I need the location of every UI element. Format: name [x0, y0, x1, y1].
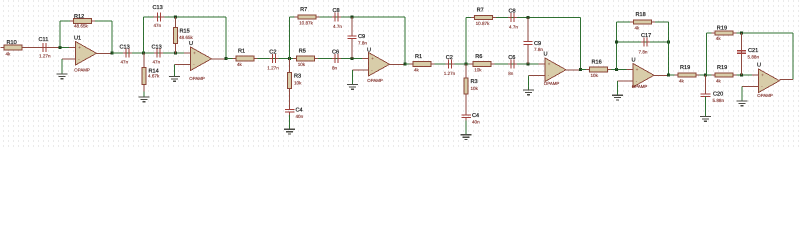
svg-text:48.65k: 48.65k: [74, 23, 88, 28]
svg-text:+: +: [193, 52, 196, 57]
svg-text:47n: 47n: [154, 23, 162, 28]
svg-text:R19: R19: [680, 65, 690, 71]
svg-text:U: U: [632, 58, 636, 64]
svg-text:C9: C9: [358, 34, 365, 40]
svg-text:R5: R5: [299, 49, 306, 55]
svg-text:OPAMP: OPAMP: [544, 81, 560, 86]
svg-text:C8: C8: [333, 8, 340, 14]
svg-text:R1: R1: [415, 54, 422, 60]
svg-text:R12: R12: [74, 14, 84, 20]
svg-text:C2: C2: [446, 55, 453, 61]
svg-text:8n: 8n: [332, 66, 338, 71]
svg-text:40n: 40n: [296, 114, 304, 119]
svg-text:C20: C20: [713, 92, 723, 98]
svg-text:4k: 4k: [716, 36, 722, 41]
svg-text:C6: C6: [508, 55, 515, 61]
svg-text:10k: 10k: [298, 62, 306, 67]
svg-text:10k: 10k: [294, 80, 302, 85]
svg-text:C6: C6: [332, 49, 339, 55]
svg-text:4k: 4k: [237, 62, 243, 67]
svg-text:R16: R16: [592, 60, 602, 66]
svg-text:C13: C13: [152, 45, 162, 51]
svg-text:C11: C11: [39, 37, 49, 43]
svg-text:7.8n: 7.8n: [358, 40, 367, 45]
svg-text:R7: R7: [477, 8, 484, 14]
svg-text:4k: 4k: [716, 78, 722, 83]
svg-text:10k: 10k: [471, 86, 479, 91]
svg-text:R19: R19: [717, 65, 727, 71]
svg-text:U1: U1: [74, 36, 81, 42]
svg-text:4k: 4k: [679, 78, 685, 83]
svg-text:8n: 8n: [508, 71, 514, 76]
svg-text:10.87k: 10.87k: [299, 20, 313, 25]
svg-text:OPAMP: OPAMP: [367, 78, 383, 83]
svg-text:C13: C13: [153, 5, 163, 11]
svg-text:+: +: [636, 68, 639, 73]
svg-text:R10: R10: [7, 40, 17, 46]
svg-text:R1: R1: [238, 49, 245, 55]
svg-text:R18: R18: [636, 12, 646, 18]
svg-text:47n: 47n: [121, 59, 129, 64]
svg-text:4.67k: 4.67k: [148, 74, 160, 79]
svg-text:C8: C8: [509, 8, 516, 14]
svg-text:47n: 47n: [153, 59, 161, 64]
svg-text:U: U: [757, 63, 761, 69]
svg-text:7.8n: 7.8n: [534, 47, 543, 52]
svg-text:C2: C2: [269, 49, 276, 55]
svg-text:4k: 4k: [414, 67, 420, 72]
svg-text:5.88n: 5.88n: [748, 54, 760, 59]
svg-text:C4: C4: [296, 108, 303, 114]
svg-text:1.27n: 1.27n: [267, 66, 279, 71]
svg-text:1.27n: 1.27n: [444, 71, 456, 76]
svg-text:R7: R7: [300, 7, 307, 13]
svg-text:7.8n: 7.8n: [639, 49, 648, 54]
svg-text:R3: R3: [471, 79, 478, 85]
svg-text:C21: C21: [748, 48, 758, 54]
svg-text:C4: C4: [472, 113, 479, 119]
svg-text:4k: 4k: [6, 51, 12, 56]
svg-text:48.65k: 48.65k: [179, 35, 193, 40]
svg-text:U: U: [544, 52, 548, 58]
svg-text:10k: 10k: [474, 67, 482, 72]
svg-text:R3: R3: [294, 74, 301, 80]
svg-text:C13: C13: [120, 45, 130, 51]
svg-text:U: U: [189, 41, 193, 47]
svg-text:+: +: [548, 63, 551, 68]
svg-text:OPAMP: OPAMP: [189, 76, 205, 81]
svg-text:R19: R19: [717, 26, 727, 32]
svg-text:OPAMP: OPAMP: [632, 84, 648, 89]
svg-text:OPAMP: OPAMP: [757, 93, 773, 98]
svg-text:4k: 4k: [635, 25, 641, 30]
svg-text:40n: 40n: [472, 119, 480, 124]
svg-text:+: +: [78, 46, 81, 51]
svg-text:R6: R6: [475, 54, 482, 60]
svg-text:+: +: [761, 74, 764, 79]
svg-text:C17: C17: [641, 33, 651, 39]
svg-text:5.88n: 5.88n: [713, 98, 725, 103]
svg-text:10k: 10k: [591, 73, 599, 78]
svg-text:4.7n: 4.7n: [509, 25, 518, 30]
svg-text:4.7n: 4.7n: [333, 24, 342, 29]
svg-text:U: U: [367, 48, 371, 54]
svg-text:1.27n: 1.27n: [39, 53, 51, 58]
svg-text:OPAMP: OPAMP: [74, 67, 90, 72]
svg-text:10.87k: 10.87k: [476, 21, 490, 26]
svg-text:R15: R15: [180, 29, 190, 35]
svg-text:+: +: [371, 57, 374, 62]
